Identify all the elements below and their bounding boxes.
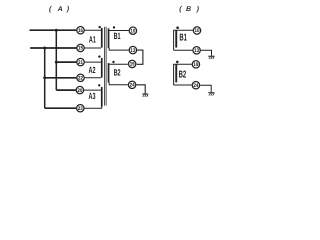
wire terminal 23 (45, 107, 76, 109)
wire 16 to winding A1 (85, 29, 101, 31)
terminal circle 24 (circuit B) (192, 82, 199, 89)
ground (circuit B lower) (208, 93, 214, 96)
winding A2 (101, 58, 103, 78)
wire 22 to winding A2 (85, 77, 101, 79)
wire elbow 24 to ground (136, 85, 145, 94)
junction dot 21/bus (55, 61, 58, 64)
terminal circle 22 (77, 74, 84, 81)
junction dot 15/bus (43, 47, 46, 50)
B1 bottom wire (174, 49, 193, 51)
title ( B ) (179, 5, 199, 13)
terminal circle 19 (129, 60, 136, 67)
B2 left line (173, 64, 175, 85)
core lines (104, 27, 106, 106)
svg-text:19: 19 (130, 62, 135, 68)
winding A3 (101, 87, 103, 107)
wire B2 top to terminal 19 (109, 63, 128, 65)
svg-text:A3: A3 (89, 91, 96, 101)
wire B1 top to terminal 10 (109, 30, 128, 32)
wire B2 bottom to terminal 24 (109, 82, 128, 85)
B2 polarity dot (176, 61, 179, 64)
terminal circle 15 (77, 44, 84, 51)
terminal circle 20 (76, 86, 83, 93)
title ( A ) (49, 5, 70, 13)
wire terminal 15 stub (30, 47, 76, 49)
B2 top wire (173, 63, 192, 65)
svg-text:23: 23 (78, 106, 83, 112)
wire elbow 13 to ground (circuit B) (201, 50, 212, 56)
wire 23 to winding A3 (84, 106, 101, 108)
polarity dot B2 (112, 61, 114, 63)
B2 winding bar (175, 64, 177, 82)
junction dot 16/bus (55, 29, 58, 32)
svg-text:24: 24 (130, 83, 135, 89)
svg-text:B1: B1 (179, 32, 187, 43)
winding B2 (circuit A) (108, 63, 110, 82)
svg-text:B: B (186, 6, 191, 13)
wire elbow 24 to ground (circuit B) (200, 85, 211, 92)
bus wire x56 (16-21-20) (55, 30, 57, 90)
terminal circle 10 (129, 27, 136, 34)
svg-text:A1: A1 (89, 34, 96, 44)
wire terminal 20 (56, 89, 76, 91)
B2 bottom wire (174, 84, 192, 86)
svg-text:B1: B1 (114, 31, 121, 41)
wire terminal 21 (56, 61, 76, 63)
bus wire x44 (15-22-23) (44, 48, 46, 108)
svg-text:21: 21 (78, 60, 83, 66)
svg-text:20: 20 (77, 88, 82, 94)
wire terminal 22 (45, 77, 77, 79)
wire 20 to winding A3 (84, 89, 101, 91)
polarity dot A1 (99, 26, 101, 28)
ground (circuit B upper) (208, 56, 214, 59)
terminal circle 10 (circuit B) (193, 27, 200, 34)
terminal circle 16 (77, 27, 84, 34)
polarity dot A2 (98, 55, 100, 57)
svg-text:A: A (57, 6, 63, 13)
wire terminal 16 stub (30, 29, 77, 31)
terminal circle 21 (77, 58, 84, 65)
B1 left line (173, 30, 175, 50)
terminal circle 23 (77, 105, 84, 112)
wire B1 bottom to terminal 13 (109, 48, 129, 50)
polarity dot A3 (98, 84, 100, 86)
svg-text:B2: B2 (114, 68, 121, 78)
terminal circle 19 (circuit B) (192, 61, 199, 68)
svg-text:22: 22 (78, 76, 83, 82)
winding B1 (circuit A) (108, 28, 110, 48)
wire elbow 13 to 19 (137, 50, 143, 64)
polarity dot B1 (113, 26, 115, 28)
svg-text:13: 13 (130, 48, 135, 54)
svg-text:24: 24 (193, 83, 198, 89)
terminal circle 13 (circuit B) (193, 47, 200, 54)
B1 winding bar (175, 30, 177, 47)
terminal circle 24 (128, 81, 135, 88)
winding A1 (101, 28, 103, 48)
B1 polarity dot (176, 26, 179, 29)
terminal circle 13 (129, 46, 136, 53)
wire 15 to winding A1 (85, 47, 101, 49)
svg-text:10: 10 (130, 28, 135, 34)
wire 21 to winding A2 (85, 61, 101, 63)
svg-text:B2: B2 (179, 69, 187, 80)
svg-text:19: 19 (193, 62, 198, 68)
svg-text:15: 15 (78, 46, 83, 52)
svg-text:A2: A2 (89, 65, 96, 75)
ground (circuit A) (142, 94, 148, 97)
svg-text:16: 16 (78, 28, 83, 34)
svg-text:13: 13 (194, 48, 199, 54)
B1 top wire (173, 29, 193, 31)
svg-text:10: 10 (195, 28, 200, 34)
junction dot 22/bus (43, 76, 46, 79)
